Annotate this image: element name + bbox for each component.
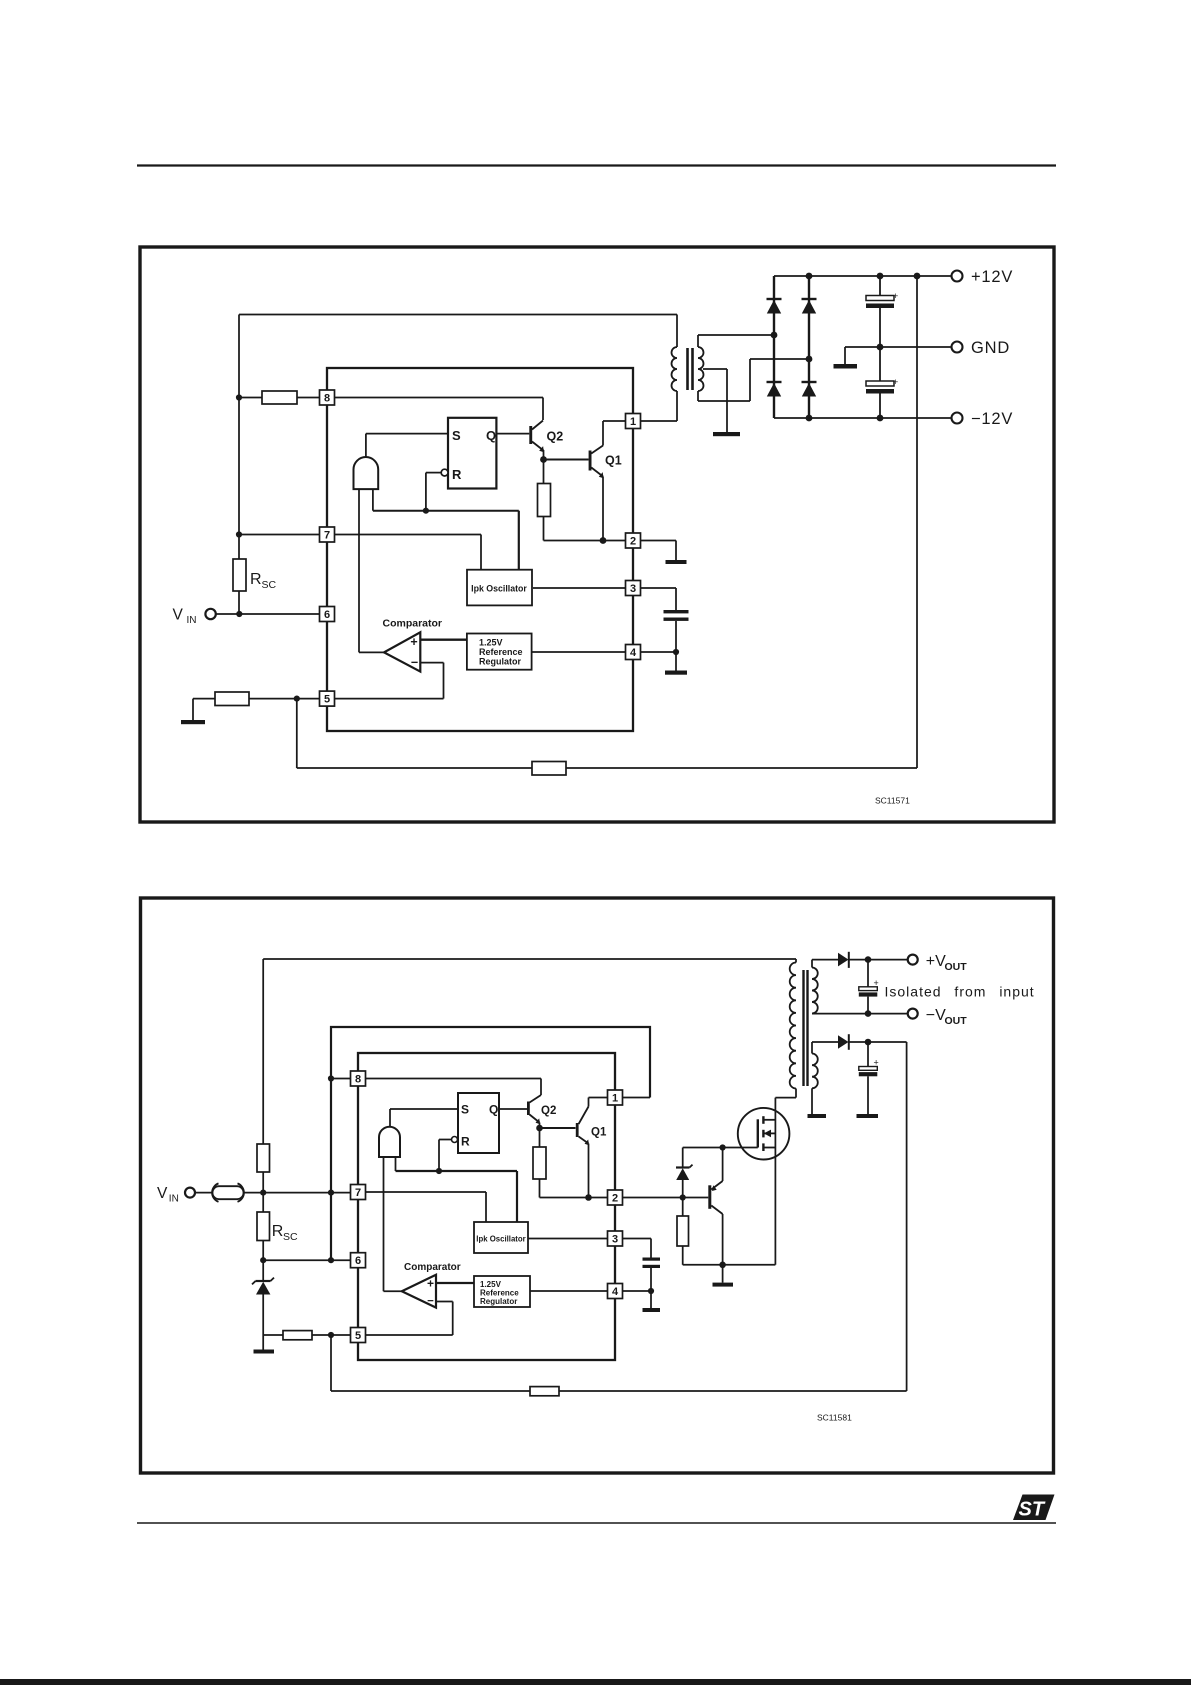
svg-text:R: R [250, 571, 262, 588]
svg-text:Ipk Oscillator: Ipk Oscillator [471, 584, 527, 594]
svg-text:V: V [173, 607, 184, 624]
svg-text:6: 6 [324, 609, 330, 621]
svg-text:R: R [461, 1135, 470, 1149]
svg-text:5: 5 [324, 694, 330, 706]
svg-text:+: + [410, 635, 417, 649]
svg-text:−: − [427, 1296, 434, 1308]
svg-text:V: V [157, 1185, 168, 1202]
svg-text:7: 7 [355, 1187, 361, 1199]
svg-text:IN: IN [187, 615, 197, 626]
svg-text:−: − [411, 656, 418, 670]
svg-text:3: 3 [630, 583, 636, 595]
svg-text:8: 8 [355, 1074, 361, 1086]
svg-text:GND: GND [971, 339, 1010, 357]
svg-text:+: + [874, 978, 879, 988]
svg-text:Regulator: Regulator [480, 1297, 517, 1306]
svg-text:+V: +V [926, 953, 946, 970]
svg-text:1: 1 [630, 416, 636, 428]
svg-text:2: 2 [630, 536, 636, 548]
svg-text:OUT: OUT [945, 1015, 968, 1027]
svg-text:Ipk Oscillator: Ipk Oscillator [476, 1235, 525, 1244]
svg-text:1.25V: 1.25V [479, 638, 503, 648]
svg-text:IN: IN [169, 1194, 179, 1205]
svg-text:4: 4 [612, 1286, 619, 1298]
svg-text:Comparator: Comparator [383, 618, 443, 630]
svg-text:6: 6 [355, 1255, 361, 1267]
svg-text:Isolated from input: Isolated from input [885, 984, 1035, 1000]
svg-text:R: R [452, 467, 462, 482]
svg-text:Q2: Q2 [547, 430, 564, 444]
svg-text:+: + [427, 1277, 434, 1291]
svg-text:+: + [893, 377, 898, 387]
svg-text:Q: Q [489, 1103, 498, 1117]
svg-text:7: 7 [324, 530, 330, 542]
svg-text:3: 3 [612, 1234, 618, 1246]
svg-text:−V: −V [926, 1007, 946, 1024]
svg-text:+: + [874, 1058, 879, 1068]
svg-text:Q2: Q2 [541, 1105, 556, 1117]
svg-text:+: + [893, 291, 898, 301]
svg-text:Q1: Q1 [591, 1127, 607, 1139]
svg-text:S: S [452, 428, 461, 443]
svg-text:SC: SC [283, 1231, 298, 1243]
svg-text:Q: Q [486, 428, 496, 443]
svg-text:R: R [272, 1223, 284, 1240]
svg-text:Reference: Reference [479, 647, 523, 657]
svg-text:Regulator: Regulator [479, 657, 522, 667]
svg-text:OUT: OUT [945, 961, 968, 973]
svg-text:Comparator: Comparator [404, 1262, 461, 1273]
svg-text:S: S [461, 1103, 469, 1117]
svg-text:4: 4 [630, 647, 637, 659]
svg-text:SC11581: SC11581 [817, 1413, 852, 1423]
svg-text:−12V: −12V [971, 410, 1013, 428]
svg-text:SC: SC [262, 579, 277, 591]
svg-text:8: 8 [324, 393, 330, 405]
svg-text:ST: ST [1019, 1499, 1046, 1521]
svg-text:2: 2 [612, 1193, 618, 1205]
svg-text:SC11571: SC11571 [875, 796, 910, 806]
svg-text:1: 1 [612, 1093, 618, 1105]
svg-text:5: 5 [355, 1330, 361, 1342]
svg-text:Q1: Q1 [605, 454, 622, 468]
svg-text:+12V: +12V [971, 268, 1013, 286]
